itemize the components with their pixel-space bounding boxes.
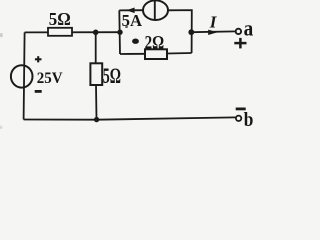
wire: middle branch upper (rail to 5Ω) [95, 32, 97, 63]
label I (current) [209, 12, 218, 31]
value label 5A [122, 11, 143, 30]
svg-text:2Ω: 2Ω [145, 33, 165, 54]
wire: parallel-group left vertical (top loop + bottom loop) [118, 10, 121, 54]
value label 5Ω for R1 [49, 9, 71, 29]
svg-text:a: a [244, 16, 254, 41]
node: junction dot rail/parallel-group left [117, 30, 122, 35]
svg-text:25V: 25V [37, 70, 63, 87]
svg-text:5Ω: 5Ω [103, 63, 121, 88]
wire: middle branch lower (5Ω to bottom rail) [95, 85, 98, 120]
current source 5A (circle with vertical bar) [143, 0, 168, 20]
svg-text:5Ω: 5Ω [49, 9, 71, 29]
terminal b (open circle) [236, 116, 241, 121]
arrowhead: current I (points right) [208, 30, 217, 35]
value label 25V [37, 70, 63, 87]
wire: loop bottom side, left of 2Ω [120, 53, 146, 55]
svg-text:b: b [244, 109, 254, 131]
wire: left branch (top corner down through 25V source to bottom corner) [24, 32, 25, 119]
value label 5Ω for middle resistor [103, 63, 121, 88]
label b [244, 109, 254, 131]
tiny ink speck right of 5A label [125, 26, 128, 28]
voltage source 25V (circle) [11, 65, 33, 87]
node: junction dot bottom rail/middle branch [94, 117, 99, 122]
scan smudge at left edge near top corner [0, 33, 3, 37]
minus polarity mark of 25V source [35, 90, 42, 93]
dot mark before 2Ω label [132, 39, 139, 44]
resistor 2Ω (bottom of loop) [145, 49, 167, 59]
plus polarity mark at terminal a [234, 38, 246, 49]
wire: bottom rail [24, 117, 236, 119]
plus polarity mark of 25V source [35, 56, 42, 62]
wire: loop top side right of current source + right vertical down through rail [168, 10, 192, 53]
wire: rail from loop right node to terminal a [191, 30, 236, 33]
node: junction dot rail/middle branch [93, 30, 99, 36]
label a [244, 16, 254, 41]
svg-text:5A: 5A [122, 11, 143, 30]
wire: top rail from left corner to parallel-group left node [25, 31, 120, 33]
node: junction dot rail/parallel-group right [188, 29, 194, 35]
wire: loop top side, left of current source [119, 9, 143, 11]
wire: loop bottom side, right of 2Ω [167, 52, 192, 55]
resistor R1 5Ω (top-left, horizontal) [48, 28, 72, 36]
scan smudge at left edge lower [0, 126, 2, 129]
minus polarity mark at terminal b [236, 108, 246, 111]
value label 2Ω [145, 33, 165, 54]
resistor 5Ω (middle, vertical) [90, 63, 102, 85]
arrowhead: 5A source current direction (points left) [126, 8, 134, 14]
terminal a (open circle) [236, 29, 241, 34]
